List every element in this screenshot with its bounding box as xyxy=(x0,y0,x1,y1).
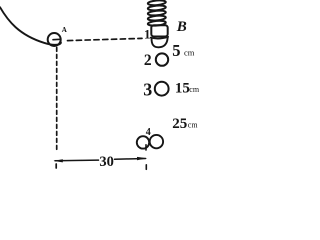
svg-text:4: 4 xyxy=(146,127,151,138)
vertical dash below dimension line left xyxy=(55,164,57,171)
ball 4 right xyxy=(150,135,163,148)
ball A circle xyxy=(48,33,61,46)
svg-text:B: B xyxy=(176,19,187,35)
ball 3 xyxy=(155,82,169,96)
svg-text:cm: cm xyxy=(184,47,195,57)
vertical dashed line below A xyxy=(56,48,58,152)
svg-text:cm: cm xyxy=(188,121,199,130)
right arrowhead xyxy=(137,157,147,160)
curved ramp track xyxy=(0,7,61,45)
svg-text:5: 5 xyxy=(172,41,180,60)
horizontal dashed line A to 1 xyxy=(68,38,143,40)
ball 4 left xyxy=(137,136,149,148)
spring coil loops xyxy=(148,0,166,6)
spring last big loop xyxy=(151,25,167,36)
ball 2 xyxy=(156,53,168,65)
dimension line right part xyxy=(115,158,146,161)
svg-text:25: 25 xyxy=(172,116,187,132)
svg-text:2: 2 xyxy=(144,52,152,69)
svg-text:1: 1 xyxy=(144,27,151,42)
left arrowhead xyxy=(53,159,62,162)
dimension line left part xyxy=(55,159,99,162)
ball 1 rim line xyxy=(151,37,169,39)
dashed tick below dimension right xyxy=(145,165,147,171)
dashed tick below ball 4 xyxy=(145,145,147,150)
svg-text:3: 3 xyxy=(143,80,152,100)
svg-text:15: 15 xyxy=(175,80,190,96)
svg-text:A: A xyxy=(62,26,67,34)
ball 1 bottom xyxy=(152,38,168,47)
svg-text:cm: cm xyxy=(189,85,200,94)
ball A inner mark xyxy=(53,38,60,40)
svg-text:30: 30 xyxy=(99,154,114,170)
